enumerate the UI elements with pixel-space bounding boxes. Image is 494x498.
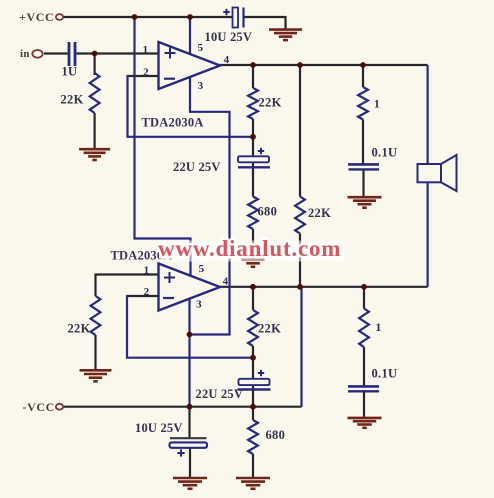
svg-text:1U: 1U — [62, 65, 78, 79]
svg-text:22K: 22K — [308, 206, 331, 220]
svg-text:4: 4 — [223, 276, 229, 288]
svg-text:5: 5 — [198, 42, 204, 54]
svg-text:TDA2030A: TDA2030A — [142, 116, 204, 130]
svg-text:2: 2 — [144, 286, 150, 298]
svg-text:1: 1 — [374, 97, 380, 111]
svg-text:680: 680 — [266, 428, 286, 442]
svg-text:in: in — [20, 48, 30, 60]
svg-text:2: 2 — [143, 67, 149, 79]
svg-text:1: 1 — [375, 320, 381, 334]
svg-text:22U 25V: 22U 25V — [173, 160, 221, 174]
svg-text:0.1U: 0.1U — [372, 146, 398, 160]
svg-text:www.dianlut.com: www.dianlut.com — [158, 236, 341, 261]
svg-text:10U 25V: 10U 25V — [135, 421, 183, 435]
svg-text:0.1U: 0.1U — [372, 367, 398, 381]
svg-text:22K: 22K — [61, 93, 84, 107]
svg-text:+VCC: +VCC — [19, 10, 54, 24]
svg-text:1: 1 — [143, 44, 149, 56]
svg-text:22K: 22K — [259, 96, 282, 110]
svg-text:22K: 22K — [68, 322, 91, 336]
svg-text:22K: 22K — [258, 322, 281, 336]
svg-text:4: 4 — [224, 54, 230, 66]
svg-text:22U 25V: 22U 25V — [196, 387, 244, 401]
svg-text:680: 680 — [258, 205, 278, 219]
svg-text:3: 3 — [198, 80, 204, 92]
svg-text:1: 1 — [144, 265, 150, 277]
svg-text:10U 25V: 10U 25V — [205, 30, 253, 44]
svg-text:5: 5 — [199, 263, 205, 275]
svg-text:-VCC: -VCC — [23, 400, 55, 414]
svg-text:3: 3 — [196, 299, 202, 311]
